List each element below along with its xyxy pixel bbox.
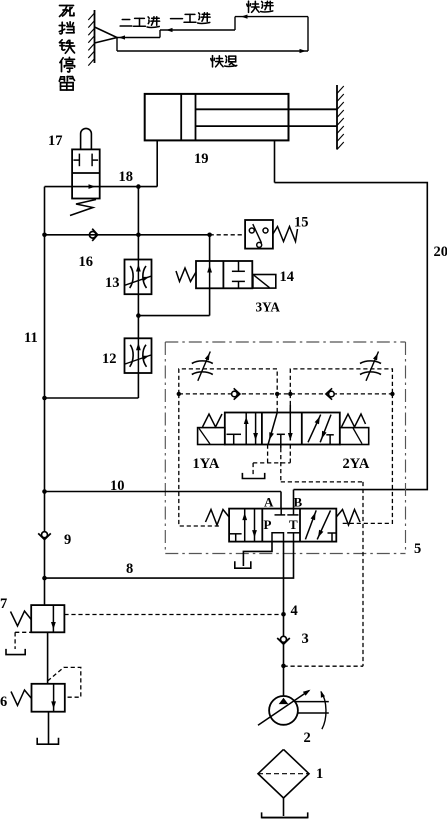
svg-text:5: 5 <box>414 541 421 557</box>
svg-text:T: T <box>289 517 298 532</box>
svg-text:6: 6 <box>0 694 7 710</box>
svg-text:B: B <box>294 495 303 510</box>
svg-text:7: 7 <box>0 596 7 612</box>
svg-text:8: 8 <box>126 561 133 577</box>
svg-text:4: 4 <box>291 603 298 619</box>
svg-text:9: 9 <box>64 532 71 548</box>
svg-text:2YA: 2YA <box>343 456 370 472</box>
svg-text:20: 20 <box>434 244 447 260</box>
svg-text:17: 17 <box>48 133 63 149</box>
svg-text:15: 15 <box>294 215 309 231</box>
svg-text:3: 3 <box>302 631 309 647</box>
svg-text:14: 14 <box>280 269 295 285</box>
svg-text:A: A <box>264 495 274 510</box>
svg-text:P: P <box>264 517 272 532</box>
svg-text:1: 1 <box>316 766 323 782</box>
svg-text:3YA: 3YA <box>256 300 281 315</box>
svg-text:1YA: 1YA <box>193 456 220 472</box>
svg-text:19: 19 <box>194 151 209 167</box>
svg-text:18: 18 <box>119 169 134 185</box>
svg-text:10: 10 <box>110 478 125 494</box>
svg-text:2: 2 <box>304 730 311 746</box>
svg-text:12: 12 <box>102 351 117 367</box>
svg-text:16: 16 <box>79 254 94 270</box>
svg-text:11: 11 <box>24 330 38 346</box>
svg-text:13: 13 <box>105 275 120 291</box>
